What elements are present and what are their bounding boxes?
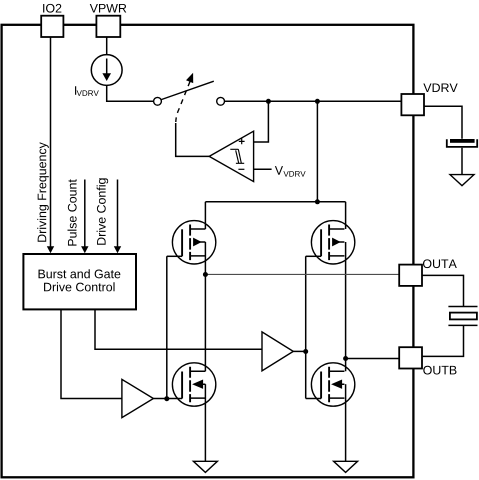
pin VPWR	[96, 16, 120, 37]
wire lower buffer output to gates	[153, 398, 182, 400]
wire switch to VDRV pin	[225, 100, 402, 102]
value label VVDRV	[275, 166, 306, 176]
wire VDRV node to bridge rail	[316, 101, 318, 202]
wire control block to upper buffer	[95, 309, 262, 349]
block Burst and Gate Drive Control	[23, 254, 136, 309]
wire TL drain to rail	[204, 202, 206, 229]
transistor Q1 top-left	[172, 221, 215, 264]
pin label VDRV	[423, 83, 457, 92]
wire VDRV node to comparator plus input	[254, 101, 269, 142]
current source IVDRV	[91, 55, 122, 86]
buffer upper	[262, 332, 293, 371]
wire Pulse Count into control block	[84, 180, 86, 248]
transistor Q3 bottom-left	[172, 363, 215, 406]
pin OUTB	[399, 347, 422, 368]
pin label VPWR	[90, 4, 127, 13]
wire OUTA to transducer	[422, 275, 463, 306]
wire OUTA	[205, 273, 399, 275]
transistor Q2 top-right	[311, 221, 354, 264]
wire VDRV pin to capacitor	[424, 106, 462, 139]
transducer piezo	[448, 307, 477, 326]
wire transducer to OUTB	[422, 325, 463, 356]
pin OUTA	[399, 265, 422, 286]
switch S1	[154, 73, 225, 122]
wire VPWR to current source	[106, 37, 108, 55]
ground right	[334, 461, 358, 472]
wire upper buffer output	[293, 350, 305, 352]
value label IVDRV	[75, 86, 99, 96]
label Pulse Count	[68, 179, 77, 245]
junction VDRV comparator tap	[266, 99, 271, 104]
wire comparator minus input stub	[254, 168, 272, 170]
wire top-left gate stub	[167, 255, 182, 257]
pin IO2	[41, 16, 63, 37]
wire TR drain to rail	[345, 202, 347, 229]
wire bottom-right gate stub	[306, 398, 321, 400]
capacitor C1	[447, 139, 477, 147]
pin label OUTB	[423, 366, 456, 375]
wire left gate column	[166, 256, 168, 398]
buffer lower	[122, 379, 153, 417]
junction lower buffer output	[164, 396, 169, 401]
wire BL source to ground	[204, 384, 206, 461]
wire Drive Config into control block	[117, 180, 119, 248]
junction rail center	[315, 199, 320, 204]
wire top-right gate stub	[306, 255, 321, 257]
wire right gate column	[305, 256, 307, 398]
junction OUTA	[203, 272, 208, 277]
junction OUTB	[343, 356, 348, 361]
pin VDRV	[401, 94, 424, 115]
label Drive Config	[97, 178, 109, 244]
ground VDRV cap	[450, 175, 474, 186]
junction VDRV bridge tap	[315, 99, 320, 104]
wire current source to switch	[107, 85, 154, 101]
wire comparator output to switch control	[176, 123, 210, 156]
pin label IO2	[43, 4, 61, 13]
wire BR source to ground	[345, 384, 347, 461]
wire control block to lower buffer	[61, 309, 122, 398]
wire capacitor to ground	[461, 148, 463, 175]
wire bridge top rail	[205, 201, 345, 203]
wire OUTA column	[204, 242, 206, 371]
wire OUTB column	[345, 242, 347, 371]
junction upper buffer output	[303, 349, 308, 354]
pin label OUTA	[423, 259, 457, 268]
ground left	[193, 461, 217, 472]
wire IO2 to control block	[50, 37, 52, 248]
comparator U1	[209, 131, 253, 181]
label Driving Frequency	[37, 142, 49, 242]
transistor Q4 bottom-right	[311, 363, 354, 406]
wire OUTB	[346, 358, 400, 360]
